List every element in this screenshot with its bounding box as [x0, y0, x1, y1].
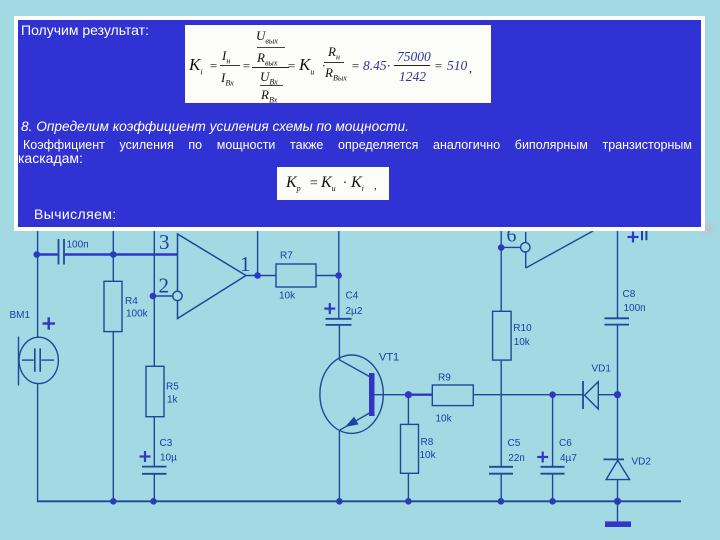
wire R8 to rail: [407, 473, 409, 501]
node dot: [498, 498, 505, 505]
wire C5 to rail: [500, 474, 502, 502]
svg-text:R4: R4: [125, 296, 138, 307]
wire R5 to C3: [153, 417, 155, 466]
svg-text:4µ7: 4µ7: [560, 453, 577, 464]
svg-text:10k: 10k: [436, 414, 453, 425]
node dot: [110, 498, 117, 505]
wire C4 branch vertical: [338, 229, 340, 319]
wire C6 branch: [552, 395, 554, 466]
capacitor C6: [541, 467, 565, 474]
resistor R10: [493, 311, 512, 360]
node dot: [335, 272, 342, 279]
svg-text:C5: C5: [508, 438, 521, 449]
op-amp U2: [501, 246, 520, 248]
svg-text:1k: 1k: [167, 395, 179, 406]
svg-text:R8: R8: [421, 437, 434, 448]
svg-text:100k: 100k: [126, 309, 149, 320]
wire ground rail: [37, 500, 681, 502]
wire to ground: [617, 501, 619, 521]
wire pin2 branch vertical: [153, 229, 155, 366]
svg-text:BM1: BM1: [10, 310, 31, 321]
ground: [605, 521, 631, 527]
svg-text:100п: 100п: [67, 240, 89, 251]
node dot: [150, 498, 157, 505]
svg-text:VD2: VD2: [632, 457, 652, 468]
svg-text:R9: R9: [438, 373, 451, 384]
node dot pin6: [498, 244, 505, 251]
power plus: [628, 232, 639, 243]
resistor R5: [146, 366, 164, 416]
wire op-amp output: [246, 275, 276, 277]
node dot: [549, 498, 556, 505]
wire R9 to VD1: [473, 394, 583, 396]
diode VD1: [582, 381, 584, 409]
wire thick input bus: [37, 253, 178, 256]
capacitor 100n: [59, 239, 65, 265]
capacitor C3: [142, 467, 167, 474]
svg-text:10k: 10k: [514, 337, 531, 348]
wire emitter to rail: [338, 430, 340, 501]
capacitor C8: [605, 318, 630, 324]
svg-text:10k: 10k: [279, 291, 296, 302]
wire VD1 to node: [598, 394, 617, 396]
wire C3 to rail: [153, 474, 155, 502]
wire VD2 to rail: [617, 480, 619, 502]
node dot A: [110, 251, 117, 258]
svg-text:2µ2: 2µ2: [346, 306, 363, 317]
capacitor C5: [489, 467, 513, 474]
wire R4 riser: [112, 229, 114, 281]
wire base node to R9: [408, 394, 432, 396]
power bars: [642, 229, 646, 240]
svg-text:C3: C3: [160, 438, 173, 449]
capacitor C4: [326, 319, 352, 325]
svg-text:10k: 10k: [420, 450, 437, 461]
wire mic bottom lead: [37, 384, 39, 502]
wire R4 to rail: [112, 332, 114, 502]
wire R7 to node: [316, 275, 339, 277]
wire output riser: [257, 229, 259, 276]
diode VD2: [604, 458, 625, 460]
svg-text:3: 3: [159, 230, 170, 254]
svg-text:100п: 100п: [624, 303, 646, 314]
node dot: [336, 498, 343, 505]
resistor R4: [104, 281, 122, 331]
node dot base: [405, 391, 412, 398]
wire R10 to C5: [500, 360, 502, 466]
resistor R7: [276, 264, 316, 287]
svg-text:VD1: VD1: [592, 364, 612, 375]
wire supply vertical: [617, 229, 619, 318]
node input dot: [34, 251, 41, 258]
svg-text:1: 1: [240, 252, 251, 276]
resistor R8: [401, 424, 419, 473]
wire C6 to rail: [552, 474, 554, 502]
svg-text:R7: R7: [280, 251, 293, 262]
node dot: [614, 498, 621, 505]
svg-text:VT1: VT1: [379, 352, 399, 364]
svg-text:2: 2: [159, 274, 170, 298]
node dot: [405, 498, 412, 505]
wire dot to bubble: [153, 295, 173, 297]
wire C4 to collector: [338, 325, 340, 361]
node dot: [549, 391, 556, 398]
svg-text:10µ: 10µ: [160, 453, 177, 464]
transistor VT1: [320, 355, 383, 433]
node dot pin2: [150, 293, 157, 300]
wire base node to R8: [407, 395, 409, 425]
svg-text:C8: C8: [623, 289, 636, 300]
op-amp U1: [178, 234, 247, 319]
resistor R9: [432, 385, 473, 406]
wire C8 to VD2: [617, 325, 619, 460]
svg-text:R5: R5: [166, 382, 179, 393]
svg-text:C4: C4: [346, 291, 359, 302]
svg-text:22п: 22п: [508, 453, 525, 464]
svg-text:R10: R10: [513, 323, 532, 334]
node dot: [614, 391, 621, 398]
node dot output: [254, 272, 261, 279]
svg-text:C6: C6: [559, 438, 572, 449]
wire mic top lead: [37, 255, 39, 338]
wire input-node riser: [37, 229, 39, 255]
wire R10 branch vertical: [500, 229, 502, 311]
